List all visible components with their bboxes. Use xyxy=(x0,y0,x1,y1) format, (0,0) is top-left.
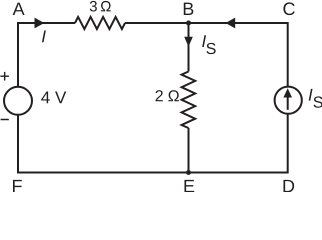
current arrow I on wire A-B (points right) xyxy=(35,18,45,29)
wire F-E (bottom left segment) xyxy=(18,172,189,174)
value label 4V xyxy=(41,92,66,104)
value label 3Ω xyxy=(90,1,111,12)
node label B xyxy=(184,3,194,15)
wire B down to 2Ω resistor xyxy=(188,23,190,72)
resistor R2 2Ω zigzag xyxy=(182,72,196,129)
node label F xyxy=(13,180,22,192)
current label Is (below node B) xyxy=(202,35,215,54)
current source U1 circle xyxy=(275,87,302,114)
voltage source plus sign xyxy=(0,72,9,81)
resistor R1 3Ω zigzag xyxy=(75,17,125,29)
current source U1 internal up arrow xyxy=(283,88,292,110)
wire C down to current source xyxy=(287,22,289,87)
wire voltage source to F xyxy=(17,114,19,174)
node label D xyxy=(283,180,294,192)
node label C xyxy=(283,2,294,15)
current arrow Is below node B (points down) xyxy=(184,37,193,47)
wire resistor-B (top middle segment) xyxy=(125,22,189,24)
wire current source to D xyxy=(287,113,289,173)
voltage source minus sign xyxy=(1,119,9,121)
wire E-D (bottom right segment) xyxy=(189,172,288,174)
current arrow on wire C-B (points left) xyxy=(226,18,236,29)
current label I (near top-left arrow) xyxy=(42,31,46,43)
node E junction dot xyxy=(186,170,191,175)
node label E xyxy=(184,180,194,192)
wire B-C (top right segment) xyxy=(189,22,288,24)
wire A-resistor (top left segment) xyxy=(18,22,75,24)
voltage source V1 circle xyxy=(4,87,32,115)
value label 2Ω xyxy=(156,90,179,101)
current label Is (right of current source) xyxy=(309,89,322,108)
node B junction dot xyxy=(186,21,191,26)
node label A xyxy=(13,3,25,15)
wire A down to voltage source xyxy=(17,22,19,88)
wire 2Ω resistor to E xyxy=(188,128,190,174)
